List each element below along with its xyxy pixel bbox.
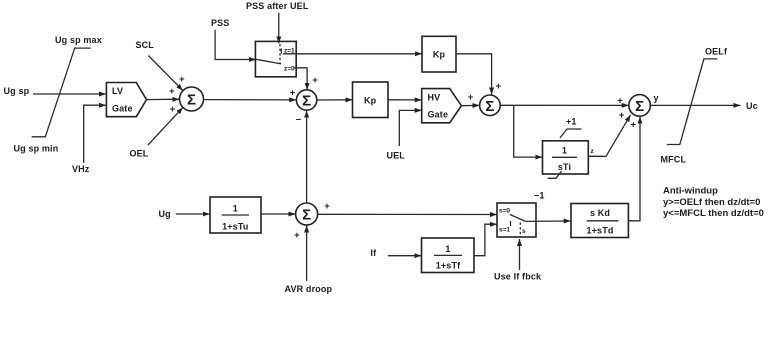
- lower limit symbol: [548, 171, 562, 178]
- svg-text:Ug sp: Ug sp: [4, 86, 30, 96]
- filter block 1/(1+sTf): [422, 238, 475, 273]
- switch SW1 blade: [256, 59, 281, 64]
- derivative block sKd/(1+sTd): [571, 204, 628, 238]
- svg-text:Gate: Gate: [112, 104, 133, 114]
- svg-text:Uc: Uc: [746, 101, 758, 111]
- svg-text:+: +: [179, 74, 185, 85]
- svg-text:PSS after UEL: PSS after UEL: [246, 1, 309, 11]
- svg-text:+: +: [170, 104, 176, 115]
- wire S5 output to Uc: [650, 104, 740, 106]
- svg-text:y>=OELf then dz/dt=0: y>=OELf then dz/dt=0: [663, 197, 760, 208]
- wire OEL into summer S1: [148, 107, 183, 145]
- wire Ug into filter block: [176, 213, 210, 215]
- svg-text:LV: LV: [112, 86, 123, 96]
- filter block 1/(1+sTu): [210, 197, 261, 233]
- wire SW2 output to derivative block: [525, 220, 570, 222]
- svg-text:z=0: z=0: [284, 66, 295, 73]
- svg-text:y<=MFCL then dz/dt=0: y<=MFCL then dz/dt=0: [663, 208, 764, 219]
- switch SW1 z=1 contact tick: [280, 49, 282, 54]
- svg-text:+: +: [496, 81, 502, 92]
- switch SW2 s=1 contact tick: [510, 221, 512, 226]
- svg-text:−: −: [296, 114, 302, 125]
- svg-text:+1: +1: [566, 117, 577, 127]
- svg-text:sTi: sTi: [558, 162, 571, 172]
- svg-text:+: +: [324, 201, 330, 212]
- wire VHz into LV gate: [84, 105, 106, 163]
- svg-text:+: +: [468, 92, 474, 103]
- svg-text:+: +: [617, 96, 623, 107]
- svg-text:s: s: [522, 228, 526, 235]
- svg-text:Σ: Σ: [635, 98, 644, 115]
- svg-text:PSS: PSS: [211, 18, 229, 28]
- wire S3 to summer S5: [500, 104, 629, 106]
- svg-text:Use If fbck: Use If fbck: [494, 272, 542, 282]
- summer S5: [629, 95, 651, 117]
- anti-windup note: [663, 186, 764, 220]
- svg-text:Σ: Σ: [485, 98, 494, 115]
- wire Kp1 output down into summer S3: [456, 54, 492, 95]
- rate limiter ramp symbol: [32, 48, 91, 137]
- svg-text:HV: HV: [428, 92, 441, 102]
- svg-text:1: 1: [562, 146, 567, 156]
- svg-text:Gate: Gate: [428, 110, 449, 120]
- wire derivative output up into summer S5: [628, 117, 640, 221]
- svg-text:AVR droop: AVR droop: [285, 284, 333, 294]
- svg-text:+: +: [631, 119, 637, 130]
- svg-text:VHz: VHz: [72, 164, 90, 174]
- svg-text:1: 1: [445, 244, 450, 254]
- svg-text:+: +: [294, 230, 300, 241]
- switch SW1 box: [255, 41, 296, 76]
- integrator block 1/sTi: [543, 141, 589, 174]
- wire S2 to Kp2: [317, 99, 353, 101]
- wire filter to summer S4: [261, 213, 296, 215]
- svg-text:Kp: Kp: [433, 50, 446, 60]
- upper limit symbol: [560, 129, 582, 138]
- svg-text:Ug sp max: Ug sp max: [55, 35, 102, 45]
- wire S1 to summer S2: [204, 99, 297, 101]
- svg-text:SCL: SCL: [136, 40, 155, 50]
- svg-text:+: +: [619, 110, 625, 121]
- svg-text:If: If: [371, 248, 378, 258]
- wire PSS after UEL selector arrow: [278, 13, 280, 44]
- svg-text:Anti-windup: Anti-windup: [663, 186, 718, 197]
- svg-text:1+sTd: 1+sTd: [586, 226, 613, 236]
- svg-text:s=1: s=1: [499, 227, 510, 234]
- wire branch down into integrator block: [514, 105, 543, 157]
- wire PSS into switch SW1: [215, 30, 256, 60]
- svg-text:+: +: [290, 87, 296, 98]
- wire HV gate to summer S3: [461, 104, 479, 106]
- svg-text:Ug: Ug: [159, 209, 171, 219]
- svg-text:+: +: [312, 75, 318, 86]
- svg-text:s Kd: s Kd: [590, 208, 610, 218]
- switch SW2 selector dashed line: [519, 223, 521, 238]
- wire integrator z output into summer S5: [588, 115, 630, 157]
- wire If into filter block: [388, 255, 422, 257]
- switch SW1 selector dashed line: [279, 44, 281, 64]
- block Kp1 (top): [422, 36, 456, 72]
- wire SCL into summer S1: [148, 56, 183, 91]
- svg-text:Σ: Σ: [302, 93, 311, 110]
- svg-text:Σ: Σ: [302, 207, 311, 224]
- summer S1: [180, 87, 204, 111]
- wire AVR droop into S4: [306, 226, 308, 282]
- wire z=1 output to Kp1: [283, 53, 422, 55]
- svg-text:s=0: s=0: [499, 208, 510, 215]
- summer S2: [296, 90, 316, 110]
- wire S4 output to switch SW2: [318, 213, 497, 215]
- summer S3: [480, 95, 501, 116]
- wire UEL into HV gate lower input: [399, 110, 421, 146]
- wire LV gate to summer S1: [147, 98, 180, 100]
- svg-text:MFCL: MFCL: [661, 155, 687, 165]
- wire Kp2 to HV gate upper input: [388, 99, 422, 101]
- svg-text:−1: −1: [534, 191, 545, 201]
- svg-text:OELf: OELf: [705, 47, 728, 57]
- svg-text:Ug sp min: Ug sp min: [14, 144, 59, 154]
- wire feedback up into S2 bottom: [306, 111, 308, 204]
- wire Use If fbck selector arrow: [519, 239, 521, 270]
- output limiter ramp symbol: [667, 59, 718, 145]
- svg-text:+: +: [169, 86, 175, 97]
- svg-text:y: y: [654, 93, 659, 103]
- switch SW2 box: [497, 203, 536, 237]
- wire z=0 output down into summer S2: [294, 68, 307, 90]
- HV gate U2: [422, 89, 462, 123]
- svg-text:UEL: UEL: [387, 151, 406, 161]
- switch SW2 blade: [510, 215, 525, 222]
- svg-text:Kp: Kp: [364, 95, 377, 105]
- svg-text:1: 1: [233, 204, 238, 214]
- wire If filter up into switch SW2 s=1 input: [474, 224, 497, 256]
- block Kp2 (middle): [353, 82, 389, 118]
- svg-text:Σ: Σ: [187, 92, 196, 109]
- summer S4: [296, 203, 318, 225]
- svg-text:OEL: OEL: [130, 149, 149, 159]
- svg-text:1+sTu: 1+sTu: [222, 222, 248, 232]
- wire Ug sp into LV gate: [33, 93, 106, 95]
- LV gate U1: [106, 83, 146, 117]
- svg-text:1+sTf: 1+sTf: [436, 261, 461, 271]
